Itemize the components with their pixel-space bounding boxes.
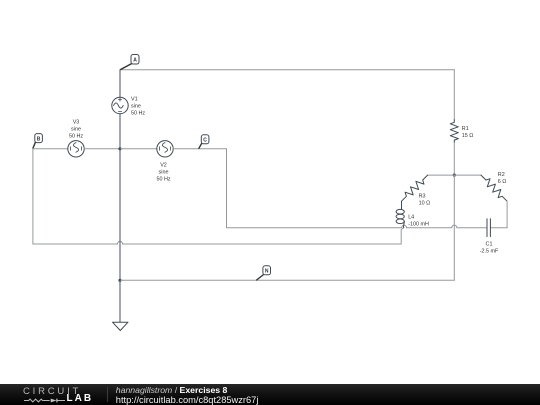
svg-text:50 Hz: 50 Hz (69, 133, 83, 139)
label V1 sine 50 Hz (131, 96, 145, 116)
voltage source V3 (68, 141, 84, 157)
junction dot at V1/V3 (118, 147, 121, 150)
svg-text:-100 mH: -100 mH (408, 221, 429, 227)
label V2 sine 50 Hz (156, 163, 170, 183)
wire hop over right vertical (452, 225, 457, 228)
ground (113, 322, 129, 330)
wire R2 bottom vertical (506, 201, 508, 228)
svg-text:50 Hz: 50 Hz (156, 177, 170, 183)
wire hop to L4 stub (123, 243, 402, 245)
wire hop over L4 terminal (402, 225, 407, 227)
svg-text:V1: V1 (131, 96, 138, 102)
svg-text:sine: sine (159, 170, 169, 176)
node B (33, 134, 42, 149)
svg-text:15 Ω: 15 Ω (462, 133, 474, 139)
footer title line (116, 385, 228, 395)
wire R2 top horizontal (454, 174, 481, 176)
wire V1 top vertical (119, 70, 121, 98)
svg-text:sine: sine (131, 103, 141, 109)
wire junction to V2 (120, 148, 157, 150)
junction dot at N wire (118, 279, 121, 282)
wire N horizontal (120, 279, 454, 281)
wire V1 bottom vertical (119, 114, 121, 149)
wire ground vertical (119, 280, 121, 322)
capacitor C1 (487, 219, 490, 237)
node A (121, 55, 139, 70)
wire R1 bottom to junction (453, 143, 455, 176)
svg-text:C: C (203, 138, 207, 144)
wire R3 top horizontal (428, 174, 455, 176)
wire hop to C1 left plate (457, 227, 487, 229)
resistor R2 (481, 175, 507, 201)
svg-text:C1: C1 (486, 241, 493, 247)
svg-text:B: B (37, 137, 41, 143)
CircuitLab logo doodle (23, 396, 68, 404)
svg-text:10 Ω: 10 Ω (419, 201, 431, 207)
wire top A horizontal (120, 69, 454, 71)
label V3 sine 50 Hz (69, 119, 83, 139)
wire C branch down and right (227, 149, 401, 228)
wire hop over ground vertical (117, 241, 122, 244)
wire V2 to C corner (173, 148, 226, 150)
footer bar (0, 384, 540, 405)
label C1 -2.5 mF (480, 241, 499, 254)
junction dot R1 bottom (453, 174, 456, 177)
node N (257, 266, 271, 280)
svg-text:6 Ω: 6 Ω (498, 179, 507, 185)
svg-text:sine: sine (71, 126, 81, 132)
svg-text:L4: L4 (408, 214, 414, 220)
svg-text:-2.5 mF: -2.5 mF (480, 248, 499, 254)
resistor R1 (450, 120, 458, 143)
svg-text:50 Hz: 50 Hz (131, 110, 145, 116)
svg-text:R1: R1 (462, 126, 469, 132)
wire mid vertical to ground node (119, 149, 121, 280)
svg-text:N: N (265, 269, 269, 275)
voltage source V1 (112, 97, 128, 113)
inductor L4 (396, 201, 404, 228)
label L4 -100 mH (408, 214, 429, 227)
voltage source V2 (157, 141, 173, 157)
wire B bottom horizontal (33, 243, 118, 245)
resistor R3 (402, 175, 428, 201)
label R3 10 ohm (419, 194, 431, 207)
svg-text:R2: R2 (498, 172, 505, 178)
svg-text:A: A (133, 58, 137, 64)
CircuitLab logo LAB (67, 393, 94, 404)
node C (199, 135, 209, 149)
CircuitLab logo CIRCUIT (23, 386, 81, 397)
wire L4 stub vertical (401, 228, 404, 244)
svg-text:R3: R3 (419, 194, 426, 200)
wire B to V3 (33, 148, 68, 150)
label R1 15 ohm (462, 126, 474, 139)
footer url line (116, 395, 259, 405)
wire right vertical top to R1 (453, 70, 455, 120)
wire B vertical down (32, 149, 34, 244)
svg-text:V2: V2 (160, 163, 167, 169)
wire V3 to junction (84, 148, 120, 150)
wire junction down through hop to N (453, 175, 455, 280)
wire L4 to hop at right vertical (407, 227, 452, 229)
svg-text:V3: V3 (73, 119, 80, 125)
label R2 6 ohm (498, 172, 507, 185)
footer divider (107, 387, 108, 402)
wire R2 to C1 right plate (490, 227, 507, 229)
